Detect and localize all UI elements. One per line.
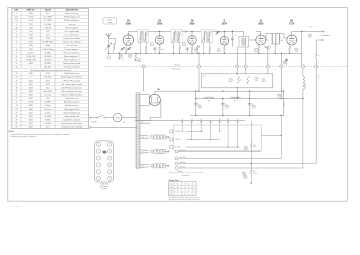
svg-text:Osc. 1 grid handle: Osc. 1 grid handle <box>64 31 79 33</box>
ref circle fr <box>277 94 280 97</box>
svg-text:V. Coil: V. Coil <box>317 75 319 80</box>
svg-text:21: 21 <box>15 98 17 100</box>
svg-text:RF filter bypass unit: RF filter bypass unit <box>64 16 80 19</box>
parts table <box>12 8 89 128</box>
svg-text:16: 16 <box>15 80 17 82</box>
svg-text:250: 250 <box>191 187 194 189</box>
svg-text:V6: V6 <box>191 183 193 185</box>
twisted pair 1.6v <box>153 163 158 168</box>
svg-text:24: 24 <box>278 95 280 97</box>
svg-text:6344: 6344 <box>29 95 33 97</box>
svg-text:1.6v: 1.6v <box>141 166 144 168</box>
ref circle 6 <box>217 49 220 52</box>
svg-text:P: P <box>309 35 310 37</box>
svg-text:Vol. unit lead: Vol. unit lead <box>67 44 77 47</box>
svg-text:RF Trim bypass: RF Trim bypass <box>65 27 78 29</box>
svg-text:16: 16 <box>192 194 194 196</box>
ground arrow <box>118 53 120 58</box>
wire pin6 up <box>280 53 282 65</box>
svg-text:6: 6 <box>16 42 17 44</box>
svg-text:Volume: Volume <box>107 20 112 22</box>
svg-text:10-11: 10-11 <box>29 42 33 44</box>
antenna <box>106 33 112 37</box>
svg-text:IF unit condenser: IF unit condenser <box>65 48 79 51</box>
svg-text:1N: 1N <box>191 21 194 23</box>
svg-text:4000: 4000 <box>282 103 284 106</box>
svg-text:11: 11 <box>16 59 18 61</box>
resistor R9 (V6 cathode) <box>289 45 291 47</box>
svg-text:2520: 2520 <box>46 38 50 40</box>
svg-text:29: 29 <box>15 127 17 129</box>
svg-text:1: 1 <box>16 13 17 15</box>
svg-text:25: 25 <box>15 112 17 114</box>
svg-text:Field supply resistor: Field supply resistor <box>64 108 80 111</box>
field coil L5 <box>302 68 304 76</box>
svg-text:7143: 7143 <box>29 27 33 29</box>
svg-text:5: 5 <box>230 80 231 82</box>
fuse / pilot lamp F1 <box>113 113 122 122</box>
svg-text:1 Meg: 1 Meg <box>45 105 50 107</box>
svg-text:6: 6 <box>218 50 219 52</box>
svg-text:Detector plate handle: Detector plate handle <box>63 62 80 65</box>
rectifier tube V7 <box>149 94 160 105</box>
antenna coil L1 <box>109 38 116 40</box>
wire right drop <box>283 91 285 115</box>
svg-text:17: 17 <box>15 84 17 86</box>
svg-text:6343: 6343 <box>29 87 33 89</box>
tube V3 <box>188 36 197 45</box>
svg-text:18: 18 <box>15 87 17 89</box>
svg-text:1.4E-460: 1.4E-460 <box>44 27 51 29</box>
resistor network R7 R8 / choke L2 <box>266 33 279 35</box>
wire return 4 chassis <box>169 172 204 174</box>
svg-text:2050: 2050 <box>157 24 163 26</box>
svg-text:520-30 E: 520-30 E <box>44 67 52 69</box>
svg-text:30: 30 <box>244 176 246 178</box>
svg-text:4 ea: 4 ea <box>203 76 206 78</box>
svg-text:16: 16 <box>120 55 122 57</box>
svg-text:Voltage Data: Voltage Data <box>169 179 179 182</box>
wire pin3 up <box>236 47 238 65</box>
wire pin6 down <box>280 68 282 98</box>
svg-text:90: 90 <box>122 59 124 61</box>
svg-text:7141: 7141 <box>29 31 33 33</box>
resistor R6 (V5 cathode) <box>258 45 260 47</box>
ref circle r12 <box>244 146 247 149</box>
svg-text:6349: 6349 <box>29 105 33 107</box>
svg-text:7142: 7142 <box>29 34 33 36</box>
svg-text:Top View: Top View <box>101 188 109 190</box>
svg-text:Trim unit: Trim unit <box>68 23 75 26</box>
resistor R2 / capacitor C4 (V2 cathode) <box>159 45 161 46</box>
heater feeds to tubes <box>181 122 183 125</box>
svg-text:0.1-1 MFD: 0.1-1 MFD <box>44 17 53 19</box>
svg-text:500 HF filtered wire insul.: 500 HF filtered wire insul. <box>62 86 83 89</box>
svg-text:29: 29 <box>243 173 245 175</box>
svg-text:62-11: 62-11 <box>46 84 50 86</box>
svg-text:2.2v: 2.2v <box>141 151 144 153</box>
svg-text:14: 14 <box>15 73 17 75</box>
connector pins P1-P8 <box>142 65 145 68</box>
svg-text:Det. filter condenser: Det. filter condenser <box>64 66 80 69</box>
svg-text:25: 25 <box>245 148 247 150</box>
wire return 3 <box>175 167 178 170</box>
heater pin circles <box>170 130 173 133</box>
ref circle B1b <box>255 77 258 80</box>
svg-text:62-3320: 62-3320 <box>44 63 51 65</box>
twisted pair 1.2v <box>153 134 158 139</box>
svg-text:2050: 2050 <box>189 24 195 26</box>
trimmer capacitor C9 <box>215 31 219 35</box>
svg-text:Filter condenser #2: Filter condenser #2 <box>64 55 79 58</box>
trimmer capacitor C3 <box>127 47 131 51</box>
svg-text:7270: 7270 <box>29 24 33 26</box>
svg-text:8: 8 <box>16 49 17 51</box>
wire ground bus <box>109 52 302 54</box>
IF transformer T1 <box>138 30 149 43</box>
wire T4 secondary to V5 grid <box>249 39 256 41</box>
wire lower rail <box>135 120 245 122</box>
svg-text:to speaker: to speaker <box>321 34 331 37</box>
svg-text:28: 28 <box>284 62 286 64</box>
svg-text:150ma: 150ma <box>253 173 257 175</box>
dial lamp resistor R12 <box>250 122 252 144</box>
svg-text:7: 7 <box>30 77 31 79</box>
ref circle 3 <box>150 43 153 46</box>
ref circle 26 <box>128 54 131 57</box>
tube V6 <box>287 35 297 45</box>
svg-text:10: 10 <box>109 164 111 166</box>
svg-text:6342: 6342 <box>29 84 33 86</box>
svg-text:720-30 E: 720-30 E <box>44 77 52 79</box>
tube V4 <box>220 36 229 45</box>
wire speaker return <box>175 162 178 165</box>
svg-text:470: 470 <box>46 13 49 15</box>
svg-text:Chassis: Chassis <box>174 64 180 66</box>
svg-text:0.1-.460: 0.1-.460 <box>44 24 51 26</box>
ref circle 12 <box>295 48 298 51</box>
svg-text:7269: 7269 <box>29 49 33 51</box>
svg-text:3: 3 <box>16 31 17 33</box>
wire panel out <box>261 134 281 136</box>
svg-text:Output filter condenser: Output filter condenser <box>63 118 82 121</box>
svg-text:4: 4 <box>184 44 185 46</box>
svg-text:4: 4 <box>16 34 17 36</box>
svg-text:6343: 6343 <box>29 80 33 82</box>
switch S1 <box>89 117 91 119</box>
svg-text:RF circuit lead & wire line: RF circuit lead & wire line <box>62 90 82 93</box>
svg-text:8A: 8A <box>290 20 293 23</box>
wire return 1 <box>175 150 178 153</box>
wire to speaker B <box>316 39 322 41</box>
svg-text:5.0v: 5.0v <box>141 121 144 123</box>
ref circle c14 <box>283 61 286 64</box>
svg-text:25 MFD: 25 MFD <box>45 52 52 54</box>
tube V5 <box>256 35 266 45</box>
svg-text:V1: V1 <box>177 183 179 185</box>
IF transformer T3 return resistor <box>203 44 205 54</box>
ref circle fc2 <box>252 105 255 108</box>
svg-text:6355: 6355 <box>29 123 33 125</box>
svg-text:250k: 250k <box>281 40 284 42</box>
svg-text:Vol AF liquid circuit: Vol AF liquid circuit <box>64 72 80 75</box>
ref circle B1c <box>262 79 265 82</box>
svg-text:On-Off Sw.: On-Off Sw. <box>90 122 98 124</box>
resistor R10 <box>135 53 136 54</box>
svg-text:0.1-1 MFD: 0.1-1 MFD <box>44 20 53 22</box>
svg-text:7176E-1745: 7176E-1745 <box>26 59 36 61</box>
wire heater tap 2.2v <box>140 149 150 152</box>
wire fuse to T5 <box>122 117 137 119</box>
power transformer T5 <box>136 92 138 169</box>
wire pin3 down <box>236 68 238 74</box>
svg-text:6.3 v: 6.3 v <box>46 127 50 129</box>
wire V1 cathode <box>125 45 127 53</box>
svg-text:771A: 771A <box>289 23 295 26</box>
svg-text:62-11: 62-11 <box>46 80 50 82</box>
svg-text:R-1: R-1 <box>208 101 211 103</box>
svg-text:6345: 6345 <box>29 98 33 100</box>
wire pin3 through box <box>236 88 238 99</box>
svg-text:1.5: 1.5 <box>184 194 186 196</box>
resistor R3 / capacitor C5 (V3 cathode) <box>191 45 193 46</box>
wire T5 rectifier filament tap <box>140 120 151 122</box>
svg-text:100 MF 700V: 100 MF 700V <box>42 42 54 44</box>
wire antenna to ground bus <box>108 50 110 54</box>
svg-text:9: 9 <box>263 80 264 82</box>
filter choke L3 <box>204 97 214 99</box>
wire pin5 down <box>267 68 269 74</box>
svg-text:.05: .05 <box>234 35 236 37</box>
svg-text:6348: 6348 <box>29 91 33 93</box>
svg-text:27: 27 <box>15 119 17 121</box>
svg-text:Det. channel plate sample: Det. channel plate sample <box>61 83 82 86</box>
ref circle 33 <box>150 164 153 167</box>
heater drop wires <box>181 125 183 131</box>
svg-text:D: D <box>210 119 211 121</box>
svg-text:0.5 MFD: 0.5 MFD <box>44 116 52 118</box>
svg-text:20: 20 <box>15 95 17 97</box>
twisted pair 2.2v <box>153 149 158 154</box>
svg-text:1.2v: 1.2v <box>141 137 144 139</box>
svg-text:G-7327: G-7327 <box>28 52 34 54</box>
svg-text:10 ohm: 10 ohm <box>45 112 51 114</box>
svg-text:G-731: G-731 <box>28 20 33 22</box>
svg-text:23: 23 <box>226 106 228 108</box>
chassis / power unit divider <box>104 66 347 68</box>
wire heater tap 1.6v <box>140 163 150 166</box>
svg-text:-3: -3 <box>177 190 178 192</box>
svg-text:7264: 7264 <box>29 13 33 15</box>
svg-text:G-738: G-738 <box>28 102 33 104</box>
output transformer T4 <box>239 36 249 47</box>
wire field coil return <box>302 99 304 169</box>
svg-text:0.05% 1 Meg: 0.05% 1 Meg <box>42 49 53 51</box>
volume potentiometer R5 <box>196 45 198 52</box>
svg-text:Vibrator buffer unit: Vibrator buffer unit <box>64 115 79 118</box>
wire pin2 up <box>198 53 200 65</box>
svg-text:1N: 1N <box>191 119 193 121</box>
svg-text:1 E-300 F: 1 E-300 F <box>44 59 53 61</box>
svg-text:1H: 1H <box>181 119 183 121</box>
svg-text:300: 300 <box>162 49 164 51</box>
svg-text:19: 19 <box>15 91 17 93</box>
svg-text:Filter unit condenser: Filter unit condenser <box>64 51 81 54</box>
ref circle 10 <box>138 59 141 62</box>
IF transformer T2 return resistor <box>173 44 175 54</box>
svg-text:7: 7 <box>16 45 17 47</box>
svg-text:VALUE: VALUE <box>45 9 52 12</box>
ref circle lamp <box>242 172 245 175</box>
svg-text:7173E-1741: 7173E-1741 <box>26 56 36 58</box>
ref circle 4 <box>182 43 185 46</box>
svg-text:516: 516 <box>309 27 312 29</box>
ref circle fc0 <box>198 105 201 108</box>
svg-text:Notes:: Notes: <box>9 130 15 133</box>
svg-text:52 meg: 52 meg <box>45 95 51 97</box>
wire rail link b <box>249 91 251 98</box>
svg-text:Heater dropping unit: Heater dropping unit <box>64 111 81 114</box>
svg-text:1 Meg: 1 Meg <box>45 45 50 47</box>
svg-text:5: 5 <box>16 38 17 40</box>
wire filter rail <box>196 98 303 100</box>
svg-text:Tube: Tube <box>170 183 173 185</box>
svg-text:PART NO.: PART NO. <box>27 9 36 12</box>
svg-text:95: 95 <box>184 187 186 189</box>
wire pin4 up <box>245 47 247 65</box>
wire pin1 down <box>143 68 145 91</box>
svg-text:1N: 1N <box>158 21 161 23</box>
svg-text:26: 26 <box>15 116 17 118</box>
svg-text:25 MFD: 25 MFD <box>45 102 52 104</box>
svg-text:6X: 6X <box>237 119 239 121</box>
svg-text:9: 9 <box>16 52 17 54</box>
trimmer capacitor C1 <box>108 43 110 45</box>
svg-text:520: 520 <box>46 34 49 36</box>
ref circle 32 <box>150 150 153 153</box>
wire pin2 down <box>198 68 200 91</box>
svg-text:10: 10 <box>15 56 17 58</box>
svg-text:Chassis: Chassis <box>177 171 183 173</box>
svg-text:6353: 6353 <box>29 119 33 121</box>
svg-text:22: 22 <box>15 102 17 104</box>
svg-text:6348: 6348 <box>29 63 33 65</box>
svg-text:7: 7 <box>30 67 31 69</box>
svg-text:-14: -14 <box>191 190 193 192</box>
filter capacitor C12 <box>222 99 224 104</box>
svg-text:0.1 MFD: 0.1 MFD <box>44 123 52 125</box>
svg-text:520: 520 <box>46 98 49 100</box>
filter capacitor C13 <box>249 99 251 104</box>
svg-text:Dial lamp & fuse assembly: Dial lamp & fuse assembly <box>61 127 82 129</box>
svg-text:27: 27 <box>253 106 255 108</box>
wire spkr drop <box>301 32 303 65</box>
wire T5 HV secondary to rectifier <box>140 94 149 96</box>
svg-text:6.3v: 6.3v <box>253 171 256 173</box>
filter capacitor C11 <box>195 99 197 104</box>
ref circle lamp2 <box>244 175 247 178</box>
svg-text:Grid: Grid <box>170 190 173 192</box>
svg-text:6351: 6351 <box>29 112 33 114</box>
wire pin8 down <box>315 68 317 163</box>
svg-text:24: 24 <box>15 109 17 111</box>
svg-text:Field: Field <box>304 85 306 88</box>
resistor R4 (V4 cathode) <box>223 45 225 46</box>
svg-text:Vol wire complete leadout: Vol wire complete leadout <box>62 94 83 97</box>
svg-text:6356: 6356 <box>29 127 33 129</box>
ref circle fc1 <box>225 105 228 108</box>
svg-text:23: 23 <box>15 105 17 107</box>
IF transformer T1 return resistor <box>139 44 141 54</box>
svg-text:7268: 7268 <box>29 38 33 40</box>
wire battery return <box>89 127 91 129</box>
svg-text:Osc. 2 grid circuit: Osc. 2 grid circuit <box>65 33 79 36</box>
wire pin4 down <box>245 68 247 74</box>
svg-text:Power Unit: Power Unit <box>172 68 181 71</box>
socket panel box <box>174 125 262 151</box>
note box volume control <box>103 18 117 24</box>
capacitor C14 spark plate <box>286 58 288 65</box>
svg-text:400 ohm: 400 ohm <box>44 109 51 111</box>
svg-text:10: 10 <box>138 60 140 62</box>
tube V1 <box>123 35 133 45</box>
wire return 2 <box>175 157 178 160</box>
ref circle 9 <box>267 46 270 49</box>
svg-text:6350: 6350 <box>29 109 33 111</box>
svg-text:Bleeder resistor: Bleeder resistor <box>65 104 78 107</box>
wire rail link a <box>195 91 197 98</box>
svg-text:11: 11 <box>109 171 111 173</box>
svg-text:1N: 1N <box>200 119 202 121</box>
svg-text:8 MFD: 8 MFD <box>45 119 51 121</box>
svg-text:12: 12 <box>15 63 17 65</box>
svg-text:IF plate circuit ballast: IF plate circuit ballast <box>63 37 80 40</box>
socket box B1 <box>201 74 272 88</box>
trimmer capacitor C2 <box>120 47 124 51</box>
svg-text:7260: 7260 <box>29 45 33 47</box>
svg-text:7: 7 <box>255 49 256 51</box>
ref circle 16 <box>119 54 122 57</box>
ref circle 7 <box>254 48 257 51</box>
ref circle B1a <box>229 78 232 81</box>
tube V2 <box>155 36 164 45</box>
svg-text:520: 520 <box>46 31 49 33</box>
svg-text:26: 26 <box>129 55 131 57</box>
svg-text:2050: 2050 <box>126 24 132 26</box>
dial lamp feed <box>250 164 252 170</box>
svg-text:6352: 6352 <box>29 116 33 118</box>
svg-text:6-8v: 6-8v <box>253 144 256 146</box>
svg-text:28: 28 <box>15 123 17 125</box>
wire heater tap 1.2v <box>140 134 150 137</box>
svg-text:RF Second bypass: RF Second bypass <box>64 20 79 22</box>
connector J1 cable end <box>95 141 114 182</box>
IF transformer T3 <box>201 30 212 43</box>
wire to speaker A <box>291 32 293 35</box>
svg-text:Volume unit condenser: Volume unit condenser <box>63 41 82 44</box>
svg-text:2050: 2050 <box>258 24 264 26</box>
wire B+ plate bus <box>127 32 129 35</box>
filter choke L4 <box>230 97 240 99</box>
svg-text:G-730: G-730 <box>28 17 33 19</box>
svg-text:12: 12 <box>296 49 298 51</box>
svg-text:62-3: 62-3 <box>46 87 50 89</box>
svg-text:V4: V4 <box>184 183 186 185</box>
ref circle spkr <box>308 34 311 37</box>
svg-text:22: 22 <box>199 106 201 108</box>
ref circle 31 <box>150 135 153 138</box>
svg-text:R-2: R-2 <box>234 101 237 103</box>
